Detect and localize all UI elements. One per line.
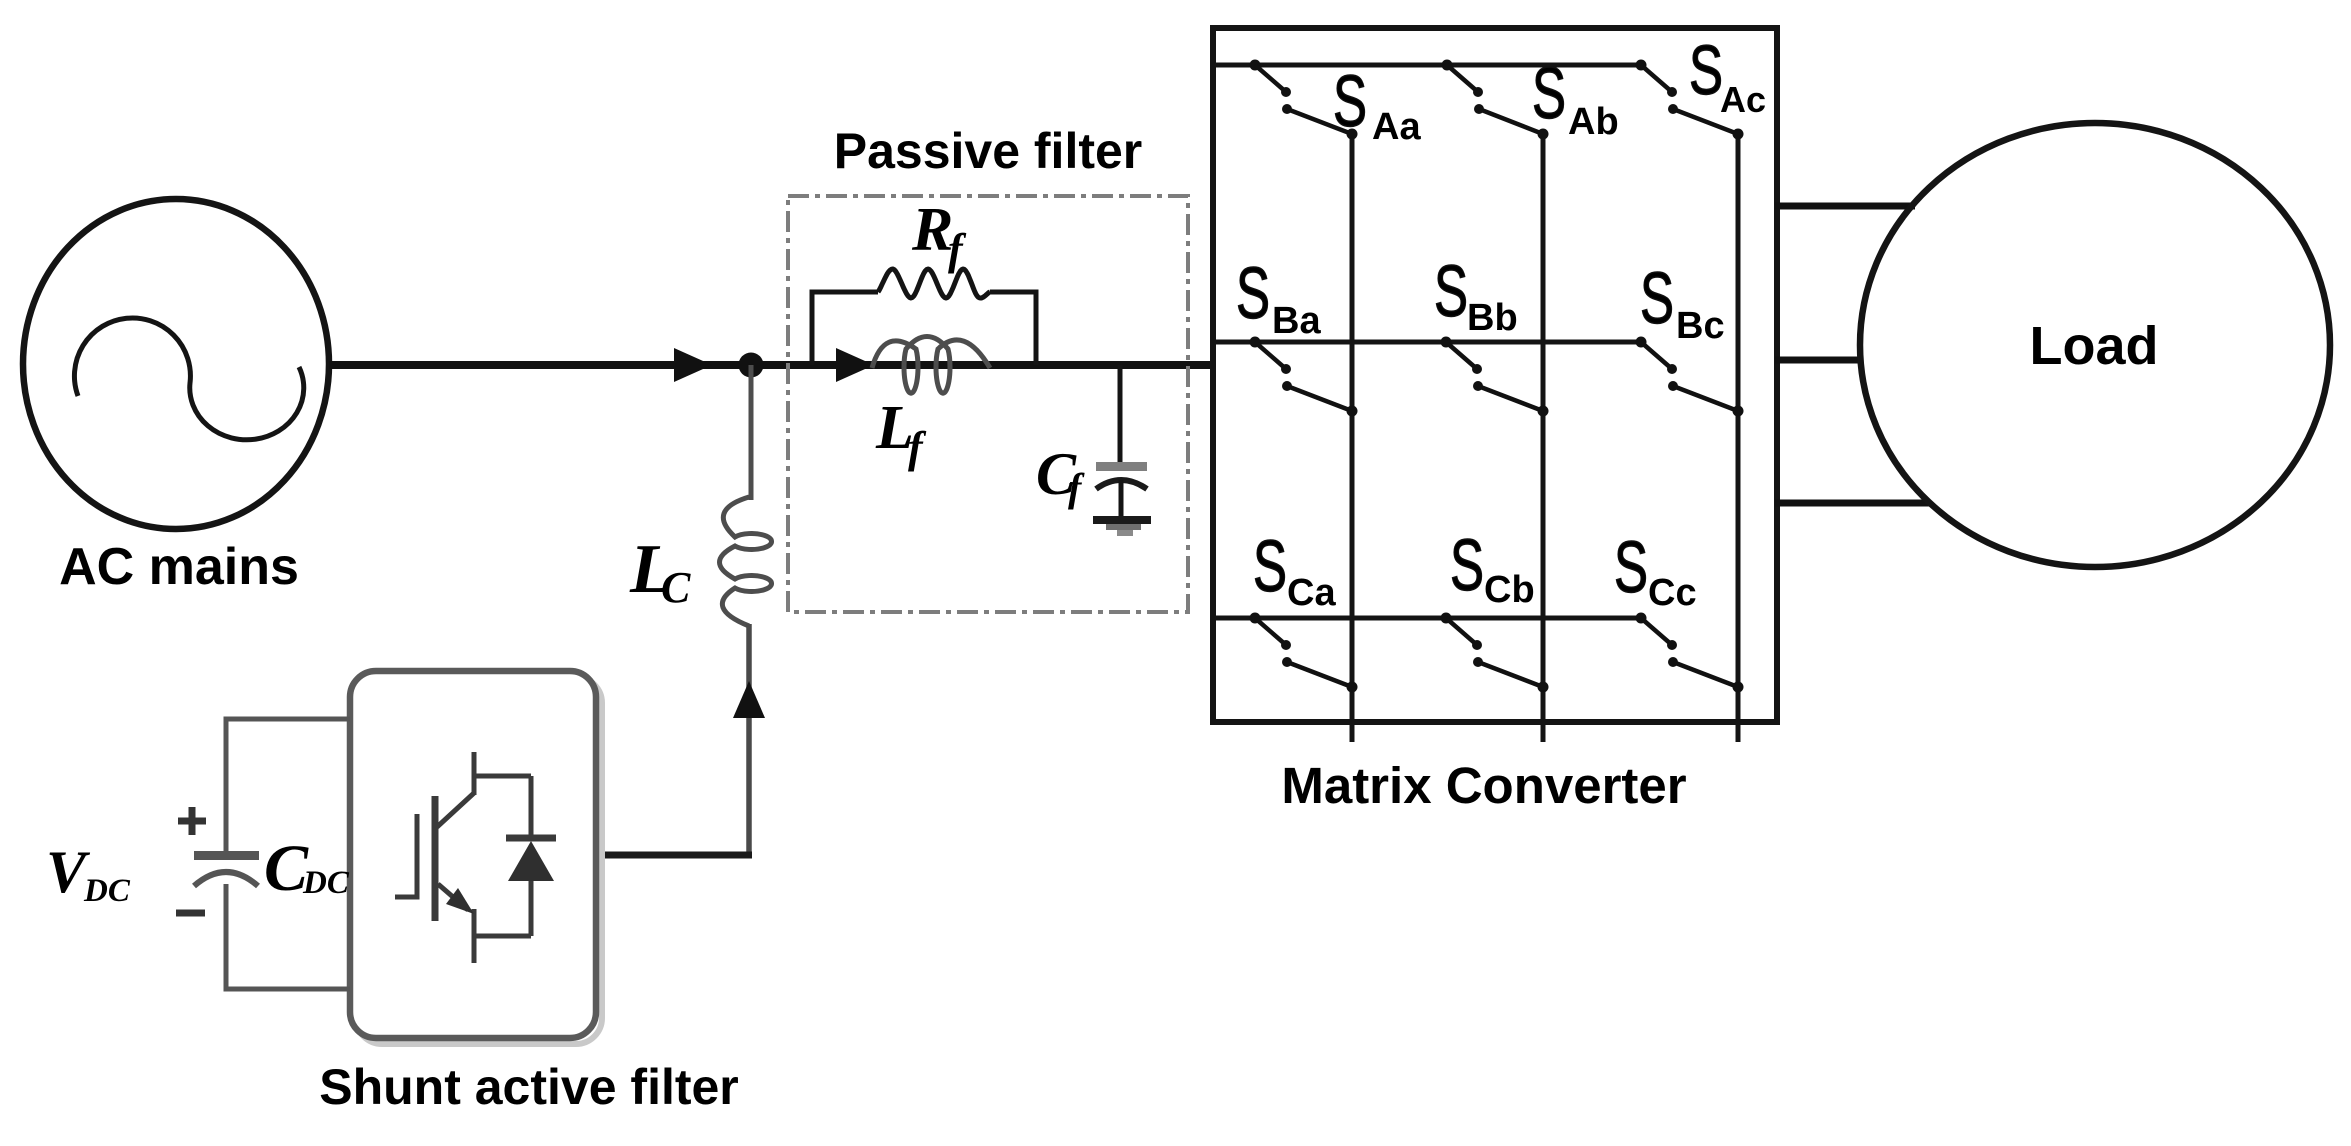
ground xyxy=(1093,516,1151,536)
svg-text:S: S xyxy=(1614,528,1648,608)
switch SCc xyxy=(1636,613,1744,693)
load circle xyxy=(1860,123,2330,567)
diode D1 xyxy=(506,776,556,936)
svg-text:C: C xyxy=(661,563,691,612)
inductor Lf xyxy=(872,337,990,394)
output wire c xyxy=(1775,500,1931,507)
switch SAa xyxy=(1250,60,1358,140)
plus sign xyxy=(178,807,206,835)
svg-text:S: S xyxy=(1236,254,1270,334)
svg-text:Cb: Cb xyxy=(1484,569,1535,611)
minus sign xyxy=(176,910,205,917)
svg-text:Matrix Converter: Matrix Converter xyxy=(1281,757,1686,814)
svg-text:Passive filter: Passive filter xyxy=(834,123,1143,179)
svg-text:S: S xyxy=(1640,259,1674,339)
svg-text:Ba: Ba xyxy=(1272,300,1321,342)
sine wave xyxy=(74,318,303,440)
svg-text:Ab: Ab xyxy=(1568,101,1619,143)
svg-text:S: S xyxy=(1253,527,1287,607)
svg-text:S: S xyxy=(1333,62,1367,142)
wire from shunt box xyxy=(594,852,752,859)
passive filter dash-dot box xyxy=(788,196,1188,612)
shunt active filter box shadow xyxy=(356,677,602,1044)
transistor Q1 (IGBT) xyxy=(395,752,531,963)
switch SCb xyxy=(1441,613,1549,693)
switch SBc xyxy=(1636,337,1744,417)
wire main bus from source to matrix converter xyxy=(329,361,1213,369)
svg-text:S: S xyxy=(1532,54,1566,134)
svg-text:Bc: Bc xyxy=(1676,305,1725,347)
column b xyxy=(1541,133,1546,742)
bus row C xyxy=(1216,616,1640,621)
svg-text:Cc: Cc xyxy=(1648,572,1697,614)
switch SAb xyxy=(1442,60,1549,140)
arrow on main wire xyxy=(674,348,712,382)
svg-text:DC: DC xyxy=(302,865,350,901)
capacitor Cf xyxy=(1096,365,1147,519)
svg-text:Bb: Bb xyxy=(1467,297,1518,339)
AC source circle xyxy=(23,199,329,529)
emitter arrowhead xyxy=(446,888,474,914)
column a xyxy=(1350,133,1355,742)
svg-text:Aa: Aa xyxy=(1372,106,1421,148)
wire to Lc xyxy=(749,365,754,500)
svg-text:Load: Load xyxy=(2030,316,2159,376)
svg-text:Ca: Ca xyxy=(1287,572,1336,614)
svg-text:Ac: Ac xyxy=(1720,79,1766,120)
svg-text:S: S xyxy=(1689,31,1723,109)
matrix converter box xyxy=(1213,28,1777,722)
bus row A xyxy=(1216,63,1641,68)
capacitor Cdc loop xyxy=(226,719,350,989)
svg-text:DC: DC xyxy=(83,873,131,909)
arrow up on shunt wire xyxy=(733,681,765,718)
svg-text:Shunt active filter: Shunt active filter xyxy=(319,1059,739,1115)
inductor Lc xyxy=(720,497,772,626)
svg-text:S: S xyxy=(1450,526,1484,606)
node junction dot xyxy=(739,353,764,378)
output wire b xyxy=(1775,357,1862,364)
svg-text:S: S xyxy=(1434,252,1468,332)
switch SBa xyxy=(1250,337,1358,417)
wire from shunt filter to node xyxy=(746,624,752,855)
bus row B xyxy=(1216,340,1642,345)
arrow on wire in filter xyxy=(836,348,874,382)
column c xyxy=(1736,134,1741,742)
resistor Rf parallel branch xyxy=(812,292,878,365)
switch SBb xyxy=(1441,337,1549,417)
svg-text:R: R xyxy=(911,196,953,264)
switch SAc xyxy=(1636,60,1744,140)
switch SCa xyxy=(1250,613,1358,693)
svg-text:AC mains: AC mains xyxy=(59,538,299,596)
shunt active filter box xyxy=(350,671,596,1038)
output wire a xyxy=(1775,203,1915,210)
